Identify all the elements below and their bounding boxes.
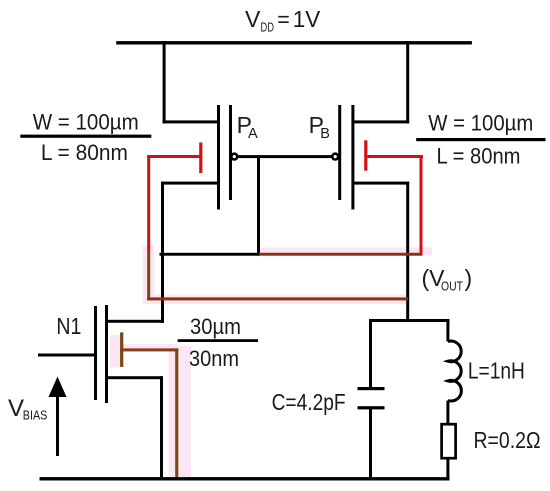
- pmos PA gate bubble: [231, 154, 237, 160]
- capacitor C top plate: [358, 387, 385, 390]
- svg-text:): ): [465, 265, 473, 291]
- pink highlight band N1 vertical: [169, 346, 192, 477]
- pmos PB channel bar: [351, 105, 354, 210]
- pmos PA drain stub: [161, 182, 220, 185]
- wire between PA and PB gates: [238, 155, 332, 158]
- pmos PA source stub: [163, 120, 220, 123]
- nmos N1 channel bar: [105, 305, 108, 403]
- dark red wire lower horizontal to VOUT: [147, 297, 408, 300]
- pink highlight band lower horizontal: [143, 295, 408, 304]
- pmos PB gate bubble: [332, 154, 338, 160]
- svg-text:A: A: [248, 126, 258, 142]
- nmos N1 gate wire: [38, 354, 94, 357]
- svg-text:R=0.2Ω: R=0.2Ω: [474, 427, 541, 453]
- pmos PA channel bar: [217, 105, 220, 210]
- capacitor bottom lead: [369, 409, 372, 480]
- pink highlight band left vertical: [143, 246, 155, 303]
- red wire left vertical: [147, 155, 150, 250]
- red wire PB gate horizontal: [367, 155, 423, 158]
- nmos N1 drain stub: [107, 320, 165, 323]
- resistor R box: [442, 424, 456, 458]
- nmos N1 gate bar: [94, 306, 97, 400]
- node wire black part: [160, 253, 259, 256]
- dark red wire left vertical lower: [147, 249, 150, 300]
- VDD rail: [116, 41, 472, 44]
- nmos N1 source down wire: [160, 376, 163, 480]
- capacitor C bottom plate: [358, 406, 385, 409]
- svg-text:30µm: 30µm: [190, 314, 241, 339]
- inductor bottom lead: [446, 401, 449, 425]
- inductor top lead: [446, 319, 449, 342]
- svg-text:OUT: OUT: [441, 280, 463, 294]
- pmos PB source stub: [353, 120, 409, 123]
- svg-text:L = 80nm: L = 80nm: [41, 140, 128, 165]
- VBIAS arrow shaft: [56, 393, 59, 456]
- wire PB drain down to tank (VOUT): [406, 182, 409, 322]
- wire VDD to PB source: [406, 41, 409, 123]
- red wire PA gate horizontal: [147, 155, 200, 158]
- dark red wire node horizontal: [259, 253, 423, 256]
- svg-text:V: V: [8, 395, 24, 422]
- svg-text:W = 100µm: W = 100µm: [33, 109, 139, 134]
- fraction bar 30um/30nm: [178, 339, 258, 342]
- svg-text:=: =: [277, 7, 290, 32]
- tank top wire: [369, 319, 449, 322]
- capacitor top lead: [369, 319, 372, 388]
- wire PA drain down to N1 drain: [161, 182, 164, 323]
- fraction bar right: [416, 138, 545, 141]
- svg-text:B: B: [320, 126, 330, 142]
- brown wire N1 gate T-bar: [120, 332, 123, 367]
- ground rail: [40, 477, 450, 480]
- svg-text:DD: DD: [261, 21, 275, 35]
- red wire PA gate T-bar: [199, 143, 202, 174]
- svg-text:L=1nH: L=1nH: [468, 358, 525, 384]
- svg-text:N1: N1: [56, 313, 81, 339]
- svg-text:30nm: 30nm: [189, 346, 239, 371]
- pink highlight band on node wire: [259, 247, 432, 255]
- svg-text:1V: 1V: [293, 6, 321, 32]
- svg-text:V: V: [245, 6, 261, 32]
- VBIAS arrowhead: [49, 377, 67, 398]
- fraction bar left: [20, 135, 151, 138]
- svg-text:BIAS: BIAS: [23, 407, 48, 422]
- wire VDD to PA source: [163, 41, 166, 123]
- pink highlight band N1 gate bar: [110, 335, 122, 368]
- svg-text:W = 100µm: W = 100µm: [428, 111, 533, 136]
- brown wire N1 vertical to ground: [175, 348, 178, 480]
- svg-text:C=4.2pF: C=4.2pF: [272, 389, 346, 415]
- wire gates down to node: [257, 156, 260, 256]
- resistor bottom lead: [446, 458, 449, 480]
- red wire right vertical: [420, 155, 423, 254]
- pmos PB drain stub: [353, 182, 409, 185]
- red wire PB gate T-bar: [364, 140, 367, 170]
- pmos PA gate bar: [229, 105, 232, 200]
- brown wire N1 gate horizontal: [120, 348, 178, 351]
- pmos PB gate bar: [338, 105, 341, 200]
- svg-text:L = 80nm: L = 80nm: [437, 144, 521, 169]
- inductor L coil: [448, 341, 461, 401]
- pink highlight band N1 horizontal: [122, 344, 178, 349]
- nmos N1 source stub: [107, 376, 164, 379]
